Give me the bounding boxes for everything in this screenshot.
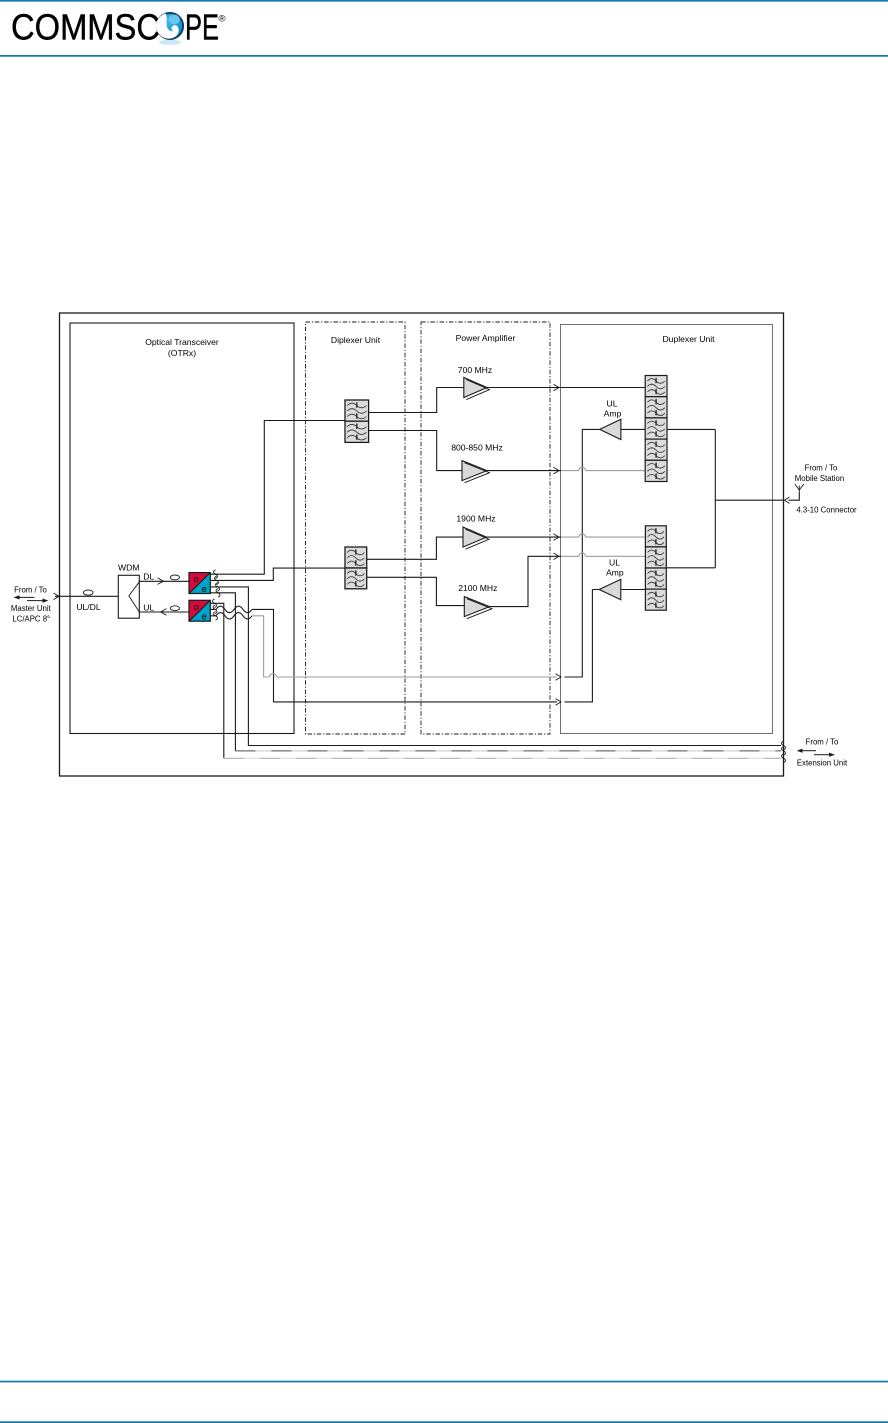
svg-text:®: ® xyxy=(219,14,226,25)
svg-text:LC/APC 8°: LC/APC 8° xyxy=(12,615,50,624)
wire: UL amp1 return inside duplexer xyxy=(565,429,600,677)
wire: diplexer filter1 top out to 700MHz amp xyxy=(369,388,464,413)
duplexer filter bank 1 xyxy=(645,376,667,482)
block: Optical Transceiver (OTRx) xyxy=(70,323,294,734)
arrow DL right xyxy=(158,578,164,585)
chevron on 1900 line xyxy=(554,534,560,541)
chevron on antenna feed xyxy=(785,497,790,503)
wire: 700MHz amp output to duplexer bank1 xyxy=(487,387,645,389)
svg-text:700 MHz: 700 MHz xyxy=(458,365,492,375)
hop: gray return over vertical x273.5 xyxy=(270,674,277,678)
svg-text:Optical Transceiver: Optical Transceiver xyxy=(145,337,219,347)
wire: 1900MHz output gray segment with hop xyxy=(561,534,645,537)
wire: WDM DL to o/e module 1 xyxy=(139,580,189,582)
wire: module2 out3 wavy fiber xyxy=(210,613,252,619)
CommScope logo globe O xyxy=(156,13,183,45)
wire: module2 out2 to UL amp 2 return xyxy=(252,590,592,702)
svg-text:UL: UL xyxy=(143,602,154,612)
svg-text:o: o xyxy=(194,602,199,613)
chevron on UL2 return xyxy=(556,699,562,706)
wire: module2 out2 wavy fiber xyxy=(210,606,252,612)
svg-text:From / To: From / To xyxy=(806,737,839,746)
arrows From/To Master Unit xyxy=(14,595,49,602)
wire: bank1 common to antenna bus xyxy=(667,428,715,430)
chevron at master feed entry xyxy=(54,593,60,600)
svg-text:UL/DL: UL/DL xyxy=(76,602,101,612)
connector ellipse on UL line xyxy=(170,606,179,611)
wire: UL amp2 output xyxy=(592,589,599,591)
diplexer filter 2 xyxy=(345,547,367,589)
chevron on 2100 line xyxy=(554,553,560,560)
connector ellipse on DL line xyxy=(170,575,179,580)
wire: 800MHz output gray segment with hop xyxy=(561,467,645,470)
wire: UL amp2 input from bank2 xyxy=(621,589,646,591)
arrow UL left xyxy=(161,609,167,616)
svg-text:Diplexer Unit: Diplexer Unit xyxy=(331,335,381,345)
wire: module1 out2 to diplexer filter2 common xyxy=(210,568,345,580)
filter wave glyphs xyxy=(347,378,665,608)
wire: connector stub to antenna xyxy=(789,492,800,500)
WDM box xyxy=(118,575,139,618)
footer rule upper xyxy=(0,1381,888,1383)
svg-text:e: e xyxy=(202,612,207,623)
block: Duplexer Unit xyxy=(561,325,773,734)
svg-text:Master Unit: Master Unit xyxy=(11,604,52,613)
power amp 2100 MHz xyxy=(464,597,492,619)
svg-text:Amp: Amp xyxy=(604,409,622,419)
o/e converter module 2 (UL) xyxy=(189,600,210,622)
wire: module1 out1 to diplexer filter1 common xyxy=(210,421,345,575)
svg-text:1900 MHz: 1900 MHz xyxy=(456,514,495,524)
svg-text:DL: DL xyxy=(143,572,154,582)
wire: module2 out3 to UL amp 1 return (gray) xyxy=(252,616,557,677)
wire: diplexer filter2 bottom out to 2100MHz amp xyxy=(367,577,465,605)
wire: module1 out3 to extension line 1 xyxy=(210,587,781,746)
power amp 700 MHz xyxy=(464,378,490,400)
wire: antenna bus vertical xyxy=(714,429,716,567)
svg-text:PE: PE xyxy=(185,6,219,47)
wire: 800MHz amp output xyxy=(487,470,561,472)
antenna symbol xyxy=(795,484,804,492)
diplexer filter 1 xyxy=(345,400,369,442)
wire: 2100MHz amp output xyxy=(490,556,562,606)
duplexer filter bank 2 xyxy=(645,526,666,610)
svg-text:4.3-10 Connector: 4.3-10 Connector xyxy=(796,505,857,514)
power amp 800-850 MHz xyxy=(462,461,490,483)
svg-text:WDM: WDM xyxy=(118,563,139,573)
wire: 2100MHz output gray segment with hop xyxy=(561,553,645,556)
svg-text:Duplexer Unit: Duplexer Unit xyxy=(662,334,715,344)
header top rule xyxy=(0,0,888,2)
svg-text:UL: UL xyxy=(609,558,620,568)
outer enclosure box xyxy=(60,313,784,776)
header bottom rule xyxy=(0,55,888,57)
svg-text:e: e xyxy=(202,584,207,595)
svg-text:COMMSC: COMMSC xyxy=(11,6,160,47)
svg-text:From / To: From / To xyxy=(805,464,838,473)
UL amplifier 1 xyxy=(600,419,621,439)
wire: UL amp1 input from bank1 xyxy=(621,428,645,430)
svg-text:Power Amplifier: Power Amplifier xyxy=(456,333,516,343)
wire: extension line 3 base xyxy=(224,757,781,759)
o/e converter module 1 (DL) xyxy=(189,573,210,595)
arrows From/To Extension Unit xyxy=(797,749,835,757)
svg-text:Amp: Amp xyxy=(606,568,624,578)
block: Power Amplifier (dashed) xyxy=(421,322,550,734)
wire: diplexer filter1 bottom out to 800MHz amp xyxy=(369,431,462,471)
svg-text:Extension Unit: Extension Unit xyxy=(797,758,848,767)
power amp 1900 MHz xyxy=(463,527,489,549)
footer rule lower xyxy=(0,1421,888,1423)
svg-text:o: o xyxy=(194,574,199,585)
wire: antenna feed to 4.3-10 connector xyxy=(715,499,783,501)
svg-text:800-850 MHz: 800-850 MHz xyxy=(451,443,503,453)
wire: module1 out4 down to extension line 2 xyxy=(210,593,235,751)
wire: bank2 common to antenna bus xyxy=(666,567,715,569)
flex squiggles on module pigtails xyxy=(213,570,220,620)
UL amplifier 2 xyxy=(599,579,621,599)
chevron on UL1 return xyxy=(556,674,562,681)
wire: o/e module 2 to WDM UL xyxy=(139,611,189,613)
svg-text:(OTRx): (OTRx) xyxy=(168,348,196,358)
wire: diplexer filter2 top out to 1900MHz amp xyxy=(367,537,463,559)
svg-text:UL: UL xyxy=(607,399,618,409)
wire: module2 out1 down to extension line 3 xyxy=(210,603,224,758)
wire: extension line 3 dashes xyxy=(224,757,781,759)
wire: extension line 2 dashes xyxy=(235,750,781,752)
block: Diplexer Unit (dashed) xyxy=(306,322,406,734)
svg-text:2100 MHz: 2100 MHz xyxy=(458,583,497,593)
connector ellipse on master feed xyxy=(83,590,93,595)
chevron on 800 line xyxy=(554,467,560,474)
svg-text:From / To: From / To xyxy=(14,585,47,594)
flex squiggles at extension line ends xyxy=(782,741,786,762)
wire: extension line 2 base xyxy=(235,750,781,752)
WIRES xyxy=(55,388,799,759)
chevron on 700 line at duplexer edge xyxy=(554,384,560,391)
svg-text:Mobile Station: Mobile Station xyxy=(795,474,844,483)
wire: 1900MHz amp output xyxy=(487,536,562,538)
wire: master unit feed into WDM xyxy=(55,595,129,597)
